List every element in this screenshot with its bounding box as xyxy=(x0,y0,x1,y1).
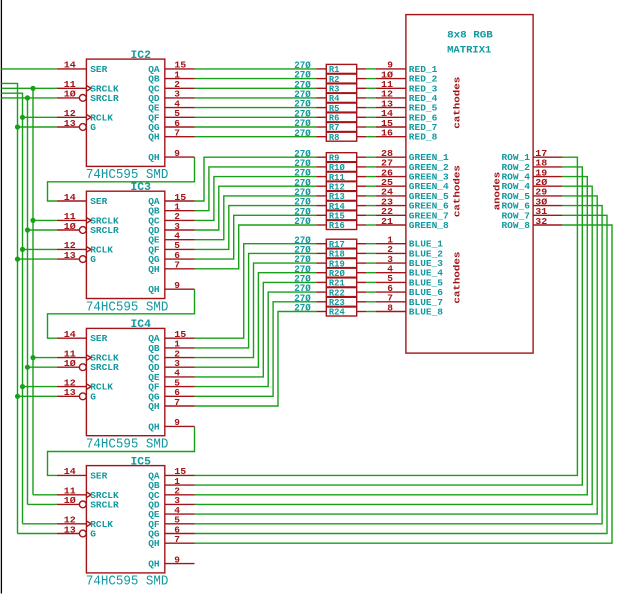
svg-text:R4: R4 xyxy=(329,94,340,104)
svg-text:14: 14 xyxy=(64,192,76,203)
svg-text:R17: R17 xyxy=(329,240,345,250)
svg-text:IC3: IC3 xyxy=(131,182,152,194)
svg-text:1Ø: 1Ø xyxy=(64,358,76,369)
svg-text:16: 16 xyxy=(381,128,393,139)
svg-text:27Ø: 27Ø xyxy=(294,216,311,228)
svg-text:cathodes: cathodes xyxy=(451,76,462,128)
svg-text:GREEN_8: GREEN_8 xyxy=(409,220,449,231)
svg-text:IC4: IC4 xyxy=(131,319,152,331)
svg-text:R8: R8 xyxy=(329,133,340,143)
svg-text:13: 13 xyxy=(64,118,76,129)
svg-text:74HC595 SMD: 74HC595 SMD xyxy=(86,299,168,315)
svg-text:cathodes: cathodes xyxy=(451,251,462,303)
svg-text:27Ø: 27Ø xyxy=(294,128,311,140)
svg-text:R2: R2 xyxy=(329,75,340,85)
svg-text:QH: QH xyxy=(148,264,160,275)
svg-text:32: 32 xyxy=(535,216,547,227)
svg-text:1Ø: 1Ø xyxy=(64,495,76,506)
svg-text:SER: SER xyxy=(90,64,107,75)
svg-text:R11: R11 xyxy=(329,173,345,183)
svg-text:9: 9 xyxy=(174,280,180,291)
svg-text:27Ø: 27Ø xyxy=(294,303,311,315)
svg-text:ROW_8: ROW_8 xyxy=(501,220,530,231)
svg-text:RED_8: RED_8 xyxy=(409,132,438,143)
svg-text:IC2: IC2 xyxy=(131,50,152,62)
svg-text:74HC595 SMD: 74HC595 SMD xyxy=(86,437,168,453)
svg-text:13: 13 xyxy=(64,524,76,535)
svg-text:R5: R5 xyxy=(329,104,340,114)
svg-text:R19: R19 xyxy=(329,259,345,269)
svg-text:QH: QH xyxy=(148,538,160,549)
svg-text:BLUE_8: BLUE_8 xyxy=(409,307,444,318)
svg-text:R14: R14 xyxy=(329,202,346,212)
svg-text:SER: SER xyxy=(90,470,107,481)
svg-text:74HC595 SMD: 74HC595 SMD xyxy=(86,574,168,590)
svg-text:SRCLR: SRCLR xyxy=(90,225,119,236)
svg-text:QH: QH xyxy=(148,401,160,412)
svg-text:R22: R22 xyxy=(329,288,345,298)
svg-text:R1: R1 xyxy=(329,65,340,75)
svg-text:cathodes: cathodes xyxy=(451,165,462,217)
svg-text:R24: R24 xyxy=(329,308,346,318)
svg-text:R9: R9 xyxy=(329,153,340,163)
svg-text:R3: R3 xyxy=(329,85,340,95)
svg-text:7: 7 xyxy=(174,128,180,139)
svg-text:R1Ø: R1Ø xyxy=(329,163,346,173)
svg-text:QH: QH xyxy=(148,559,160,570)
svg-text:G: G xyxy=(90,254,96,265)
svg-text:SRCLR: SRCLR xyxy=(90,93,119,104)
svg-text:9: 9 xyxy=(174,554,180,565)
svg-text:R16: R16 xyxy=(329,221,345,231)
svg-text:R12: R12 xyxy=(329,182,345,192)
svg-text:G: G xyxy=(90,529,96,540)
svg-text:QH: QH xyxy=(148,284,160,295)
svg-text:R2Ø: R2Ø xyxy=(329,269,346,279)
svg-text:R18: R18 xyxy=(329,250,345,260)
svg-text:SRCLR: SRCLR xyxy=(90,499,119,510)
svg-text:9: 9 xyxy=(174,148,180,159)
svg-text:21: 21 xyxy=(381,216,393,227)
svg-text:7: 7 xyxy=(174,260,180,271)
svg-text:G: G xyxy=(90,122,96,133)
svg-text:QH: QH xyxy=(148,132,160,143)
svg-text:1Ø: 1Ø xyxy=(64,221,76,232)
svg-text:QH: QH xyxy=(148,421,160,432)
svg-text:14: 14 xyxy=(64,466,76,477)
svg-text:R13: R13 xyxy=(329,192,345,202)
svg-text:R21: R21 xyxy=(329,279,345,289)
svg-text:74HC595 SMD: 74HC595 SMD xyxy=(86,167,168,183)
svg-text:QH: QH xyxy=(148,152,160,163)
svg-text:8x8 RGB: 8x8 RGB xyxy=(447,30,493,41)
svg-text:SER: SER xyxy=(90,196,107,207)
svg-text:R15: R15 xyxy=(329,212,345,222)
svg-text:R6: R6 xyxy=(329,114,340,124)
svg-text:14: 14 xyxy=(64,60,76,71)
svg-text:8: 8 xyxy=(387,302,393,313)
svg-text:SER: SER xyxy=(90,333,107,344)
svg-text:MATRIX1: MATRIX1 xyxy=(447,44,491,55)
svg-text:R7: R7 xyxy=(329,123,340,133)
svg-text:9: 9 xyxy=(174,417,180,428)
svg-text:1Ø: 1Ø xyxy=(64,89,76,100)
svg-text:anodes: anodes xyxy=(491,171,502,210)
svg-text:G: G xyxy=(90,391,96,402)
svg-text:7: 7 xyxy=(174,397,180,408)
svg-text:13: 13 xyxy=(64,250,76,261)
svg-text:R23: R23 xyxy=(329,298,345,308)
svg-text:13: 13 xyxy=(64,387,76,398)
svg-text:IC5: IC5 xyxy=(131,456,152,468)
svg-text:SRCLR: SRCLR xyxy=(90,362,119,373)
svg-text:14: 14 xyxy=(64,329,76,340)
svg-text:7: 7 xyxy=(174,534,180,545)
